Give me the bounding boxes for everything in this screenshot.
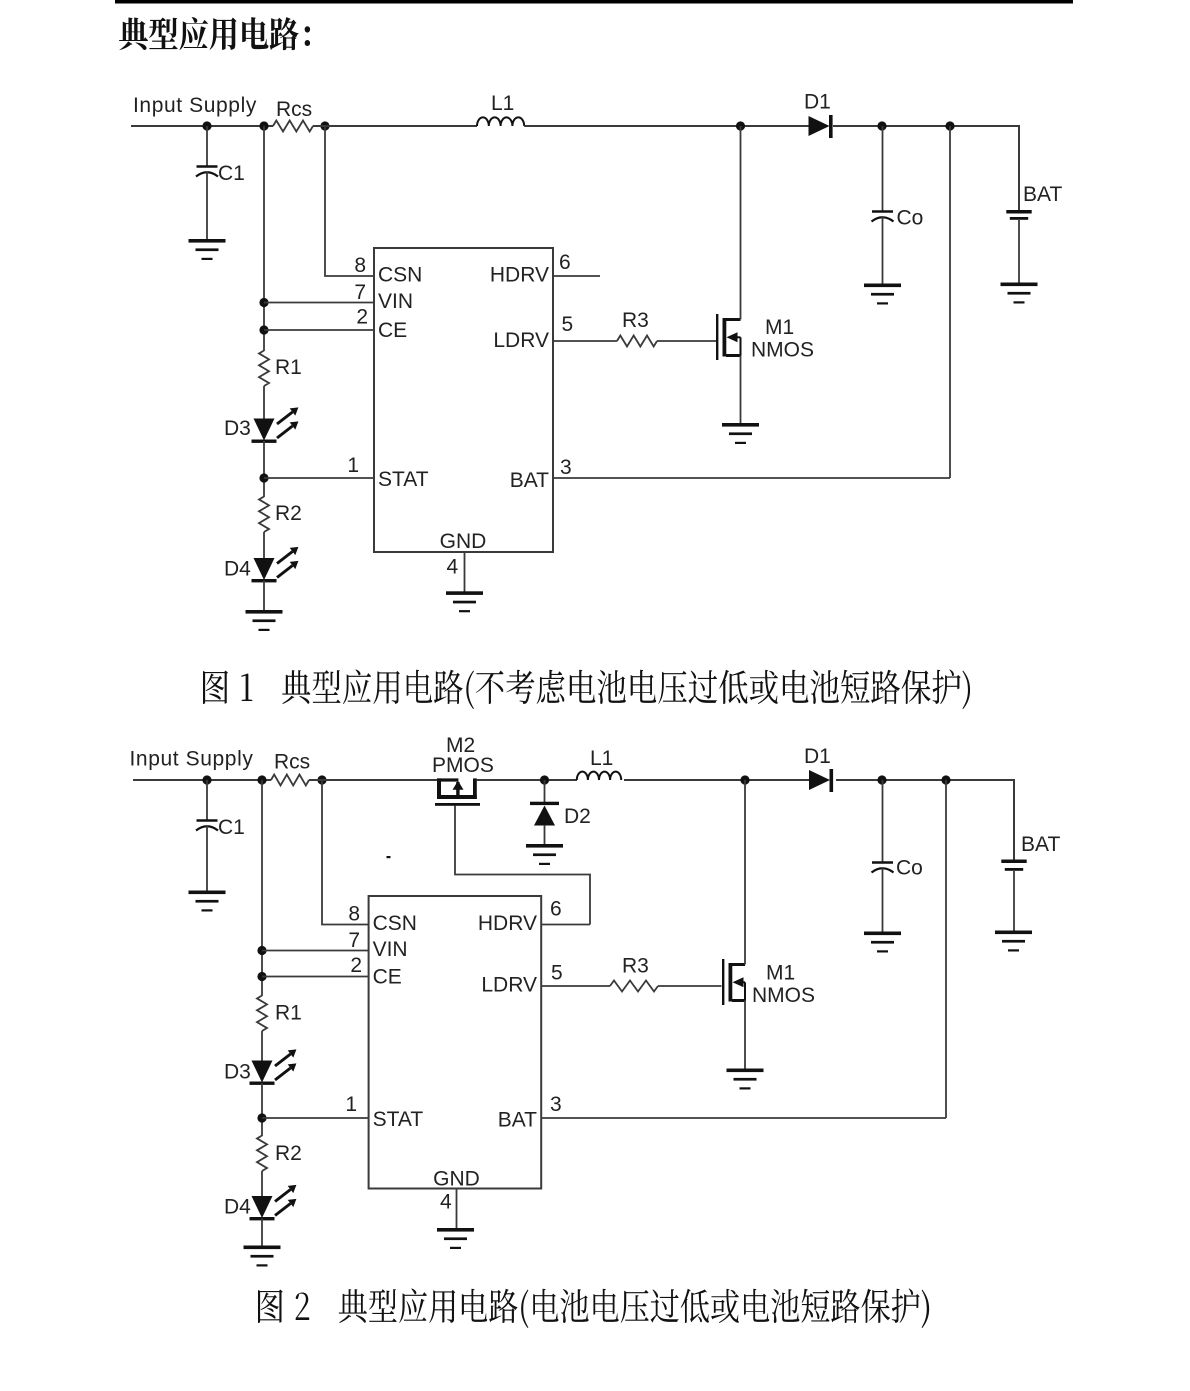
svg-text:VIN: VIN — [378, 290, 413, 313]
svg-text:D3: D3 — [224, 1061, 251, 1084]
svg-text:R1: R1 — [275, 1002, 302, 1025]
svg-text:8: 8 — [348, 903, 360, 926]
wire CSN pin 8 — [325, 126, 374, 276]
node branch junction fig2 — [257, 775, 266, 784]
capacitor C1 fig2 — [206, 780, 208, 821]
wire VIN/CE branch vertical fig2 — [261, 780, 263, 996]
svg-text:L1: L1 — [491, 92, 514, 115]
ground under battery — [1001, 283, 1038, 304]
svg-text:NMOS: NMOS — [751, 339, 814, 362]
ground under D4 fig2 — [244, 1246, 281, 1267]
op-amp U1 IC box — [374, 248, 553, 552]
resistor R1 — [259, 351, 269, 386]
svg-text:BAT: BAT — [1023, 183, 1062, 206]
node CSN junction fig2 — [317, 775, 326, 784]
svg-text:5: 5 — [562, 313, 574, 336]
node BAT feedback junction — [945, 121, 954, 130]
svg-text:4: 4 — [447, 556, 459, 579]
svg-text:CSN: CSN — [373, 912, 417, 935]
svg-text:GND: GND — [440, 530, 487, 553]
transistor M1 NMOS fig2 — [722, 959, 745, 1005]
svg-text:M1: M1 — [766, 962, 795, 985]
svg-text:HDRV: HDRV — [478, 912, 537, 935]
caption fig 1 — [203, 669, 970, 709]
inductor L1 — [477, 117, 524, 126]
wire input rail left — [131, 125, 273, 127]
svg-text:D2: D2 — [564, 805, 591, 828]
wire BAT feedback vertical — [949, 126, 951, 478]
wire LDRV pin 5 fig2 — [541, 985, 610, 987]
LED D3 — [252, 407, 299, 443]
svg-text:R3: R3 — [622, 309, 649, 332]
ground under Co fig2 — [864, 932, 901, 953]
svg-text:R1: R1 — [275, 356, 302, 379]
node VIN junction fig2 — [257, 946, 266, 955]
svg-text:GND: GND — [433, 1168, 480, 1191]
wire D3 to STAT node — [263, 441, 265, 497]
stray dot mark — [387, 856, 391, 858]
svg-text:HDRV: HDRV — [490, 264, 549, 287]
resistor R3 fig2 — [610, 981, 658, 992]
battery BAT fig2 — [1001, 860, 1026, 871]
svg-text:Rcs: Rcs — [274, 750, 310, 773]
node M1 drain junction fig2 — [740, 775, 749, 784]
resistor R2 fig2 — [257, 1136, 267, 1171]
wire rail to L1 — [313, 125, 477, 127]
svg-text:3: 3 — [550, 1093, 562, 1116]
wire BAT pin 3 fig2 — [541, 1117, 946, 1119]
wire BAT pin 3 — [553, 477, 950, 479]
svg-text:BAT: BAT — [510, 469, 549, 492]
svg-text:1: 1 — [345, 1093, 357, 1116]
wire CE pin 2 — [264, 329, 374, 331]
wire M2 gate to HDRV — [455, 806, 590, 925]
wire CSN pin 8 fig2 — [322, 780, 369, 925]
wire LDRV pin 5 — [553, 340, 617, 342]
wire STAT pin 1 fig2 — [262, 1117, 369, 1119]
svg-text:3: 3 — [560, 456, 572, 479]
svg-text:D3: D3 — [224, 417, 251, 440]
svg-text:6: 6 — [550, 898, 562, 921]
ground under D2 — [526, 844, 563, 865]
svg-text:CE: CE — [378, 319, 407, 342]
wire rail to M2 — [309, 779, 437, 781]
ground under M1 — [722, 423, 759, 444]
resistor R2 — [259, 497, 269, 533]
wire M1 drain up fig2 — [744, 780, 746, 965]
svg-text:7: 7 — [348, 929, 360, 952]
wire VIN pin 7 fig2 — [262, 950, 369, 952]
node CE junction — [259, 325, 268, 334]
wire M1 source down — [740, 356, 742, 425]
LED D4 — [252, 547, 299, 583]
caption fig 2 — [258, 1288, 929, 1328]
wire rail corner down to battery fig2 — [1013, 779, 1015, 860]
wire R2 to D4 — [263, 532, 265, 559]
svg-text:1: 1 — [347, 454, 359, 477]
wire BAT feedback vertical fig2 — [945, 780, 947, 1118]
wire rail L1 to D1 fig2 — [624, 779, 809, 781]
svg-text:BAT: BAT — [1021, 833, 1060, 856]
wire R3 to M1 gate fig2 — [658, 985, 722, 987]
svg-text:Rcs: Rcs — [276, 98, 312, 121]
svg-text:R2: R2 — [275, 1142, 302, 1165]
wire R1 to D3 — [263, 386, 265, 419]
svg-text:CSN: CSN — [378, 264, 422, 287]
svg-text:PMOS: PMOS — [432, 754, 494, 777]
wire HDRV pin 6 stub — [553, 275, 600, 277]
node branch junction — [259, 121, 268, 130]
wire rail L1 to D1 — [524, 125, 809, 127]
capacitor C1 junction fig2 — [202, 775, 211, 784]
LED D4 fig2 — [250, 1185, 297, 1221]
svg-text:L1: L1 — [590, 747, 613, 770]
ground under C1 fig2 — [189, 891, 226, 912]
node CSN junction — [320, 121, 329, 130]
wire rail D1 to corner — [833, 125, 1019, 127]
wire D4 to ground — [263, 581, 265, 612]
svg-text:Co: Co — [897, 206, 924, 229]
svg-text:5: 5 — [551, 962, 563, 985]
svg-text:D4: D4 — [224, 558, 251, 581]
svg-text:R2: R2 — [275, 502, 302, 525]
wire input rail left fig2 — [133, 779, 271, 781]
svg-text:4: 4 — [440, 1191, 452, 1214]
transistor M1 NMOS — [716, 314, 741, 360]
node M1 drain junction — [736, 121, 745, 130]
svg-text:6: 6 — [559, 251, 571, 274]
node VIN junction — [259, 298, 268, 307]
diode D1 — [809, 115, 833, 138]
ground under C1 — [189, 239, 226, 260]
wire rail D1 to corner fig2 — [836, 779, 1014, 781]
wire M1 source down fig2 — [744, 1001, 746, 1070]
top border rule — [115, 0, 1073, 4]
wire CE pin 2 fig2 — [262, 976, 369, 978]
wire R2 to D4 fig2 — [261, 1171, 263, 1197]
wire D3 to STAT node fig2 — [261, 1083, 263, 1136]
ground under battery fig2 — [995, 931, 1032, 952]
node D2 junction — [540, 775, 549, 784]
svg-text:R3: R3 — [622, 955, 649, 978]
capacitor Co fig2 — [882, 780, 884, 863]
title 典型应用电路： — [119, 17, 310, 50]
wire R3 to M1 gate — [657, 340, 716, 342]
svg-text:Input Supply: Input Supply — [130, 748, 254, 771]
svg-text:C1: C1 — [218, 162, 245, 185]
transistor M2 PMOS — [435, 778, 480, 805]
svg-text:BAT: BAT — [498, 1109, 537, 1132]
wire GND pin 4 — [464, 552, 466, 593]
inductor L1 fig2 — [577, 772, 621, 780]
wire D2 to ground — [544, 825, 546, 845]
capacitor C1 junction — [202, 121, 211, 130]
figure 2 schematic — [130, 734, 1061, 1267]
resistor R3 — [617, 336, 657, 347]
ground under D4 — [246, 610, 283, 631]
capacitor C1 — [206, 126, 208, 167]
capacitor Co — [882, 126, 884, 212]
svg-text:C1: C1 — [218, 816, 245, 839]
svg-text:2: 2 — [356, 306, 368, 329]
wire STAT pin 1 — [264, 477, 374, 479]
diode D1 fig2 — [809, 769, 833, 792]
ground under Co — [864, 284, 901, 305]
wire battery to ground — [1018, 220, 1020, 284]
svg-text:LDRV: LDRV — [493, 329, 549, 352]
svg-text:CE: CE — [373, 966, 402, 989]
wire VIN pin 7 — [264, 302, 374, 304]
svg-text:D4: D4 — [224, 1196, 251, 1219]
wire rail corner down to battery — [1018, 125, 1020, 211]
svg-text:STAT: STAT — [378, 468, 429, 491]
svg-text:2: 2 — [350, 954, 362, 977]
resistor Rcs — [273, 121, 313, 132]
op-amp U2 IC box fig2 — [369, 896, 542, 1189]
ground under GND pin fig2 — [437, 1228, 474, 1249]
LED D3 fig2 — [250, 1049, 297, 1085]
resistor R1 fig2 — [257, 996, 267, 1032]
wire GND pin 4 fig2 — [456, 1189, 458, 1230]
node STAT junction fig2 — [257, 1113, 266, 1122]
wire battery to ground fig2 — [1013, 871, 1015, 932]
svg-text:8: 8 — [354, 254, 366, 277]
node CE junction fig2 — [257, 972, 266, 981]
ground under M1 fig2 — [727, 1069, 764, 1090]
node BAT feedback junction fig2 — [941, 775, 950, 784]
svg-text:LDRV: LDRV — [481, 974, 537, 997]
svg-text:VIN: VIN — [373, 938, 408, 961]
wire VIN/CE branch vertical — [263, 126, 265, 351]
svg-text:Co: Co — [896, 856, 923, 879]
svg-text:7: 7 — [354, 281, 366, 304]
svg-text:Input Supply: Input Supply — [133, 94, 257, 117]
wire HDRV pin 6 fig2 — [541, 924, 590, 926]
wire rail M2 to L1 — [477, 779, 578, 781]
wire D4 to ground fig2 — [261, 1219, 263, 1247]
node Co junction — [877, 121, 886, 130]
svg-text:M1: M1 — [765, 316, 794, 339]
wire R1 to D3 fig2 — [261, 1031, 263, 1061]
svg-text:NMOS: NMOS — [752, 984, 815, 1007]
figure 1 schematic — [131, 91, 1062, 632]
ground under GND pin — [446, 591, 483, 612]
diode D2 — [544, 780, 546, 802]
node Co junction fig2 — [877, 775, 886, 784]
node STAT junction — [259, 473, 268, 482]
resistor Rcs fig2 — [271, 775, 309, 786]
wire M1 drain up — [740, 126, 742, 320]
svg-text:STAT: STAT — [373, 1108, 424, 1131]
battery BAT — [1006, 210, 1031, 220]
svg-text:D1: D1 — [804, 745, 831, 768]
svg-text:D1: D1 — [804, 91, 831, 114]
